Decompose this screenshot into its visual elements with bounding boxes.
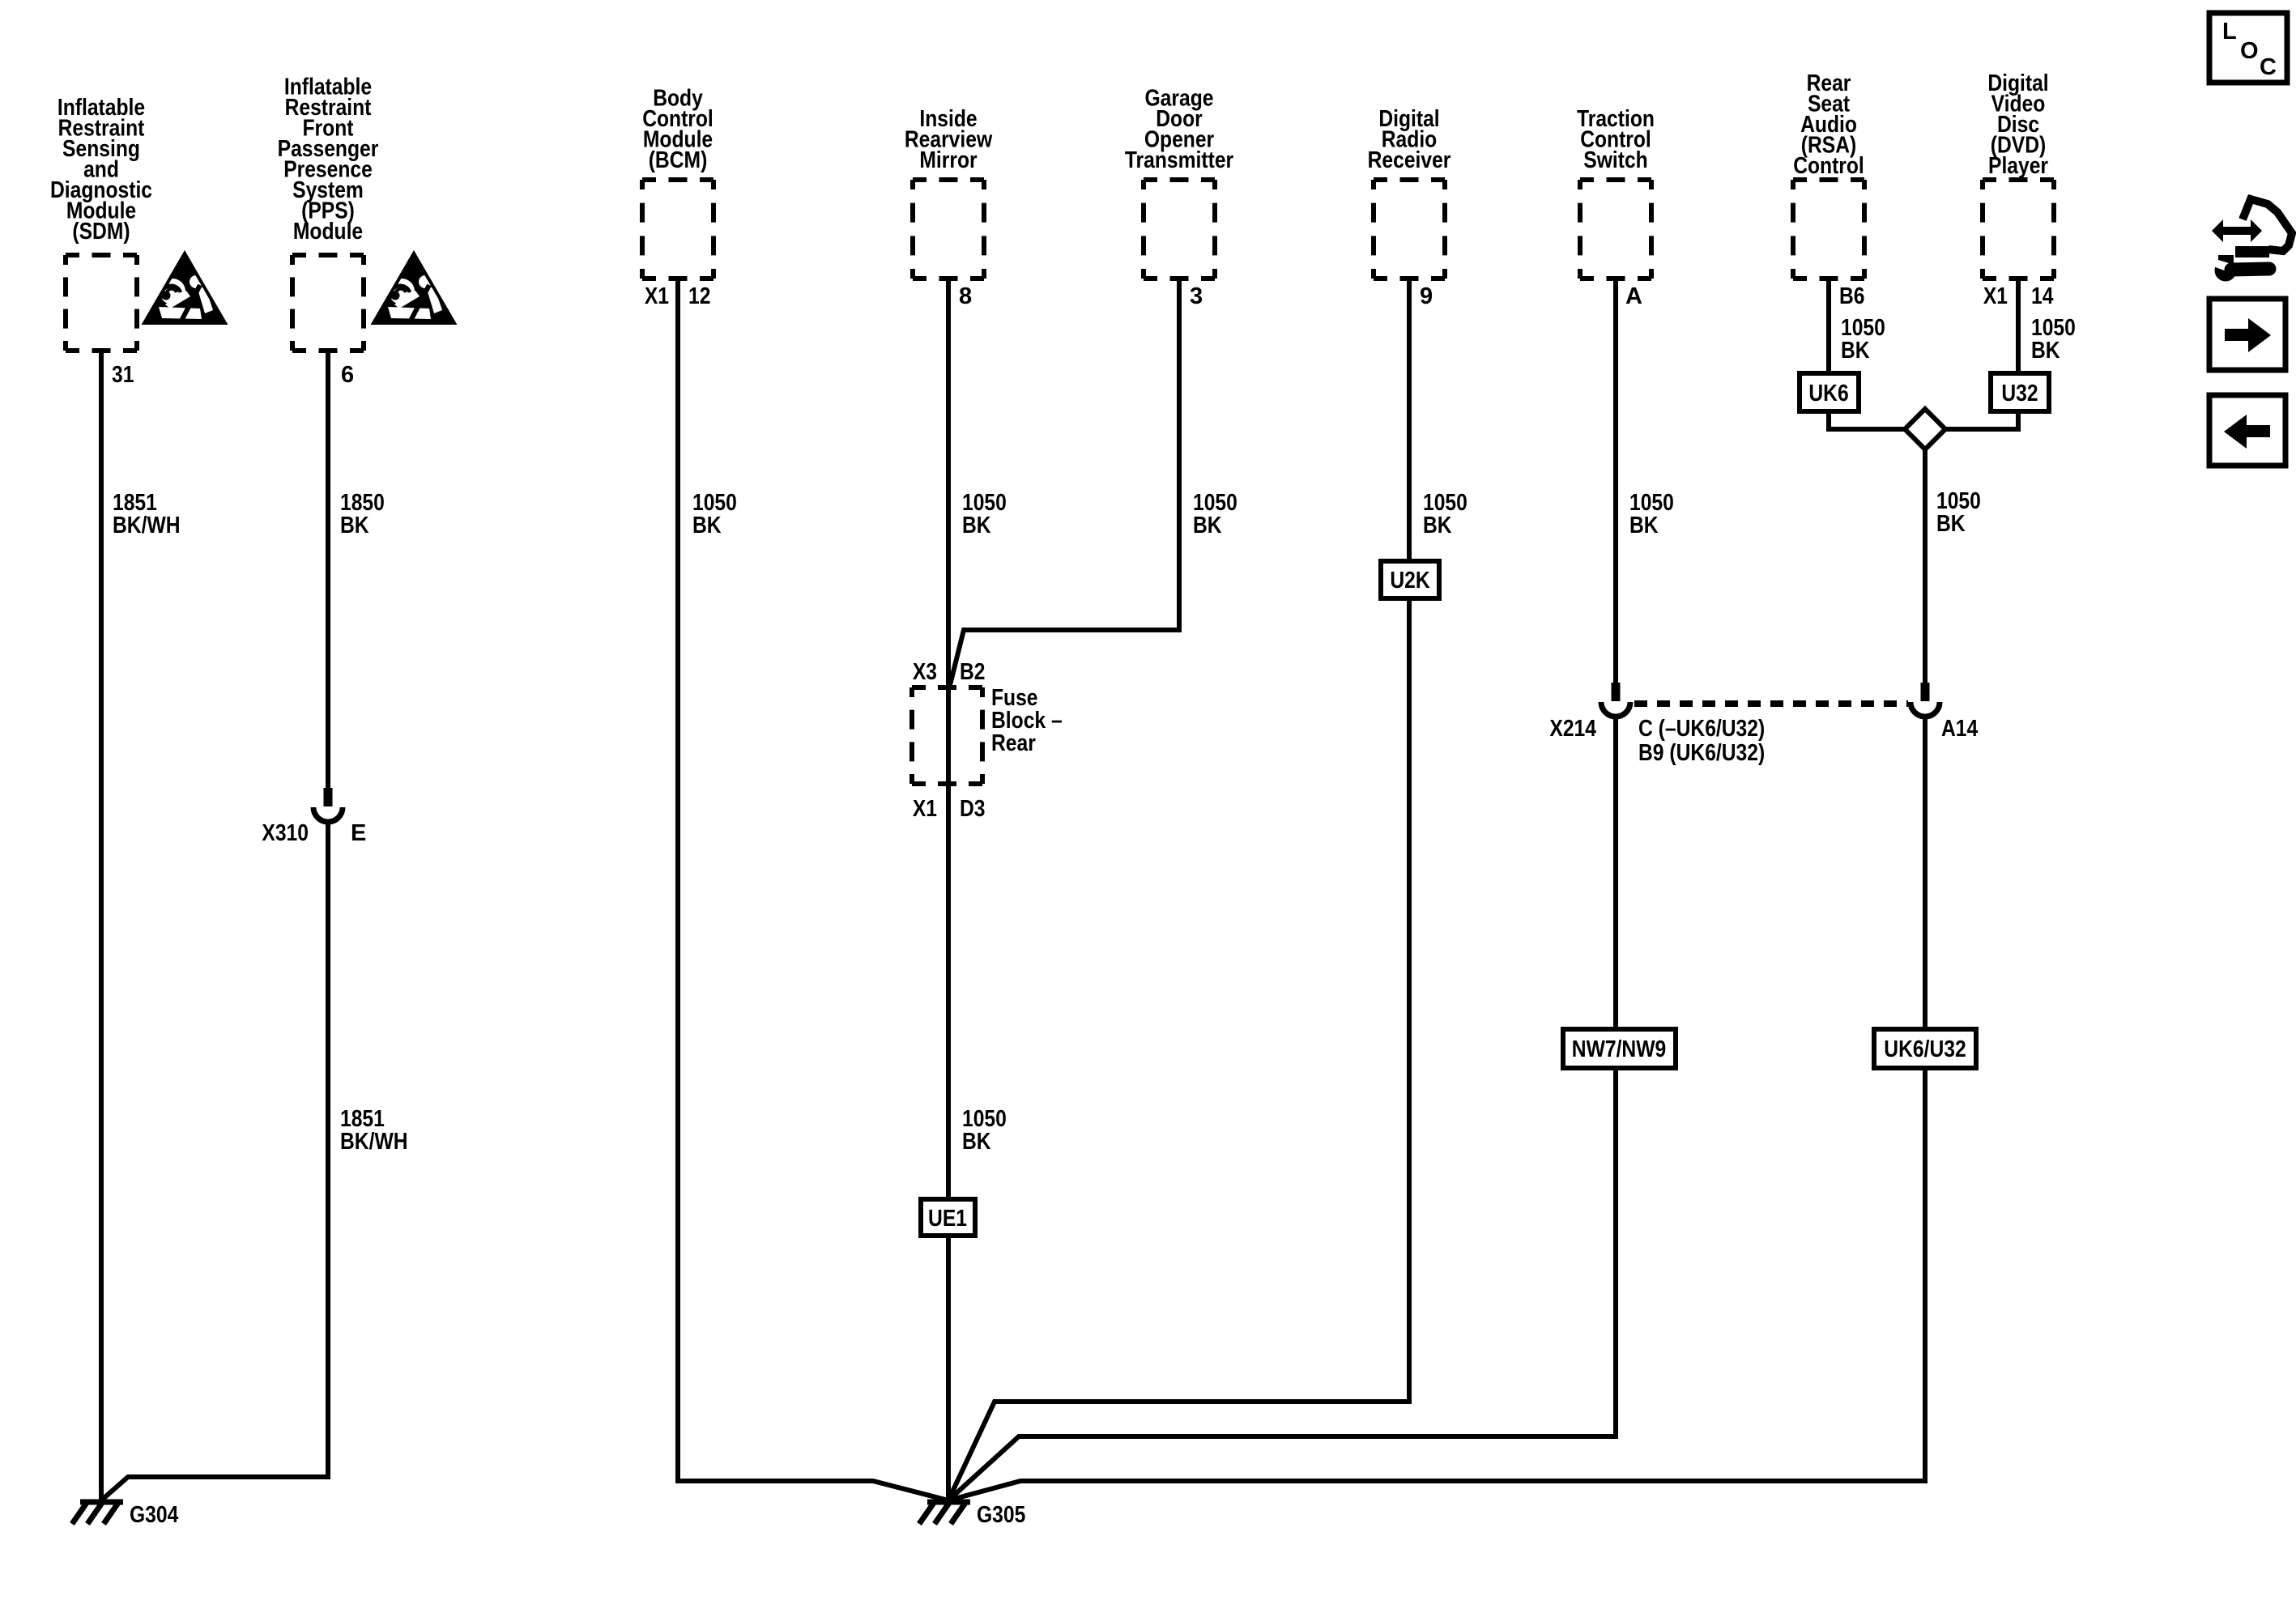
wire: Garage Door Opener Transmitter pin3 1050 BK joining mirror wire at fuse block X3-B2 — [949, 279, 1179, 688]
svg-text:B9 (UK6/U32): B9 (UK6/U32) — [1638, 740, 1765, 766]
wire: X214 to NW7/NW9 — [1613, 716, 1618, 1029]
wire label 1850 BK (PPS) — [340, 490, 385, 538]
connector label X310 E — [262, 820, 366, 846]
label: Inflatable Restraint Sensing and Diagnostic Module (SDM) — [50, 95, 152, 245]
svg-text:BK: BK — [1936, 511, 1966, 537]
wire: Traction Control Switch pinA 1050 BK to X214 — [1613, 279, 1618, 684]
svg-text:B6: B6 — [1839, 283, 1865, 309]
svg-text:Transmitter: Transmitter — [1125, 147, 1233, 173]
wire label 1050 BK (Radio) — [1423, 490, 1467, 538]
svg-text:BK: BK — [962, 1129, 991, 1155]
label: Garage Door Opener Transmitter — [1125, 86, 1233, 174]
wire: UK6/U32 to G305 — [948, 1068, 1925, 1500]
dashed tie line X214 to A14 — [1634, 700, 1908, 707]
connector dashed box: RSA Control — [1793, 180, 1864, 279]
wire: A14 to UK6/U32 — [1923, 716, 1928, 1029]
connector dashed box: Digital Radio Receiver — [1374, 180, 1445, 279]
svg-text:Switch: Switch — [1583, 147, 1647, 173]
option box U32 — [1991, 373, 2049, 411]
svg-text:Rear: Rear — [991, 730, 1036, 756]
svg-text:(SDM): (SDM) — [72, 219, 130, 245]
svg-text:X1: X1 — [645, 283, 669, 309]
svg-text:BK/WH: BK/WH — [340, 1129, 408, 1155]
svg-text:X1: X1 — [913, 796, 937, 822]
label: Inside Rearview Mirror — [905, 106, 993, 173]
svg-text:D3: D3 — [960, 796, 986, 822]
svg-text:U32: U32 — [2001, 381, 2038, 406]
forward arrow box — [2209, 299, 2285, 370]
svg-text:O: O — [2240, 38, 2259, 64]
back arrow box — [2209, 395, 2285, 466]
fuse block pin X3 B2 — [913, 659, 986, 685]
wire: Inside Rearview Mirror pin8 1050 BK through Fuse Block to G305 — [946, 279, 951, 1500]
svg-text:Player: Player — [1988, 153, 2048, 179]
svg-text:31: 31 — [112, 362, 134, 388]
label: Digital Radio Receiver — [1368, 106, 1451, 173]
svg-text:BK: BK — [692, 513, 722, 538]
wire: PPS pin6 1850 BK to X310 — [326, 351, 330, 789]
svg-text:BK: BK — [1193, 513, 1222, 538]
svg-text:BK/WH: BK/WH — [113, 513, 181, 538]
svg-text:L: L — [2222, 19, 2237, 45]
connector dashed box: Traction Control Switch — [1580, 180, 1651, 279]
splice diamond — [1905, 409, 1945, 449]
svg-text:BK: BK — [962, 513, 991, 538]
svg-text:B2: B2 — [960, 659, 986, 685]
wire: UK6 to splice diamond — [1829, 411, 1905, 429]
service/repair icon (double arrow, panel outline, wrench) — [2212, 199, 2292, 282]
svg-text:UK6: UK6 — [1808, 381, 1848, 406]
connector dashed box: Garage Door Opener Transmitter — [1144, 180, 1215, 279]
connector dashed box: PPS module — [292, 255, 364, 351]
svg-text:UK6/U32: UK6/U32 — [1884, 1036, 1966, 1062]
svg-text:Mirror: Mirror — [919, 147, 977, 173]
label: Fuse Block - Rear — [991, 685, 1063, 756]
wire label 1050 BK (Traction) — [1629, 490, 1674, 538]
wire label 1050 BK (BCM) — [692, 490, 737, 538]
connector dashed box: DVD Player — [1983, 180, 2054, 279]
ground G304 symbol — [72, 1502, 123, 1524]
label: Digital Video Disc (DVD) Player — [1987, 70, 2048, 179]
wire: U32 to splice diamond — [1945, 411, 2018, 429]
svg-text:BK: BK — [1629, 513, 1659, 538]
pin X1 14 (DVD) — [1983, 283, 2054, 309]
svg-text:8: 8 — [959, 283, 972, 309]
ground G305 symbol — [919, 1502, 970, 1524]
pin X1 12 (BCM) — [645, 283, 711, 309]
svg-text:BK: BK — [1841, 338, 1870, 364]
svg-text:12: 12 — [688, 283, 710, 309]
svg-text:X3: X3 — [913, 659, 937, 685]
svg-text:G304: G304 — [130, 1502, 178, 1528]
svg-text:C (–UK6/U32): C (–UK6/U32) — [1638, 716, 1765, 742]
svg-text:G305: G305 — [977, 1502, 1025, 1528]
svg-text:Control: Control — [1793, 153, 1864, 179]
wire: splice 1050 BK to A14 — [1923, 449, 1928, 684]
connector dashed box: Inside Rearview Mirror — [913, 180, 984, 279]
svg-text:BK: BK — [2031, 338, 2060, 364]
svg-text:14: 14 — [2031, 283, 2053, 309]
svg-text:X310: X310 — [262, 820, 309, 846]
svg-text:C: C — [2260, 54, 2277, 80]
wire label 1050 BK (GDO) — [1193, 490, 1237, 538]
wire: U2K to G305 — [948, 598, 1409, 1500]
option box UK6 — [1800, 373, 1859, 411]
svg-text:Module: Module — [293, 219, 363, 245]
LOC legend box — [2209, 13, 2287, 83]
svg-text:X1: X1 — [1983, 283, 2008, 309]
svg-text:A: A — [1625, 283, 1642, 309]
wire: RSA Control B6 1050 BK to UK6 — [1826, 279, 1831, 373]
wire label 1050 BK (below splice) — [1936, 488, 1981, 537]
svg-text:6: 6 — [341, 362, 354, 388]
option box NW7/NW9 — [1563, 1029, 1676, 1068]
wire label 1851 BK/WH (PPS lower) — [340, 1106, 408, 1155]
label: Traction Control Switch — [1577, 106, 1655, 173]
option box UK6/U32 — [1874, 1029, 1976, 1068]
svg-text:9: 9 — [1420, 283, 1433, 309]
label: Body Control Module (BCM) — [642, 86, 714, 174]
wire: X310 to G304 1851 BK/WH — [101, 822, 328, 1500]
svg-text:BK: BK — [1423, 513, 1452, 538]
option box UE1 — [921, 1199, 975, 1236]
wire: SDM pin31 1851 BK/WH to G304 — [99, 351, 104, 1500]
connector X310 symbol — [313, 788, 343, 822]
fuse block pin X1 D3 — [913, 796, 986, 822]
wire label 1851 BK/WH (SDM) — [113, 490, 181, 538]
wire label 1050 BK (Mirror) — [962, 490, 1007, 538]
svg-text:UE1: UE1 — [928, 1206, 967, 1232]
svg-text:A14: A14 — [1941, 716, 1978, 742]
wire label 1050 BK (Mirror lower) — [962, 1106, 1007, 1155]
svg-text:3: 3 — [1190, 283, 1203, 309]
svg-text:E: E — [351, 820, 366, 846]
wire: Digital Radio Receiver pin9 1050 BK to U2K — [1407, 279, 1412, 561]
label: Rear Seat Audio (RSA) Control — [1793, 70, 1864, 179]
svg-text:(BCM): (BCM) — [649, 147, 708, 173]
connector X214 symbol — [1601, 683, 1630, 717]
connector dashed box: BCM — [642, 180, 714, 279]
svg-text:U2K: U2K — [1390, 568, 1429, 594]
connector dashed box: SDM module — [66, 255, 137, 351]
connector dashed box: Fuse Block - Rear — [912, 687, 982, 784]
svg-text:Receiver: Receiver — [1368, 147, 1451, 173]
connector A14 symbol — [1910, 683, 1940, 717]
wire: BCM X1-12 1050 BK to G305 — [678, 279, 948, 1500]
warning triangle (airbag) for PPS — [373, 253, 454, 323]
option box U2K — [1381, 561, 1439, 598]
wire: NW7/NW9 to G305 — [948, 1068, 1616, 1500]
wire label 1050 BK (DVD) — [2031, 315, 2076, 364]
svg-text:X214: X214 — [1549, 716, 1596, 742]
svg-text:BK: BK — [340, 513, 369, 538]
wire: DVD Player X1-14 1050 BK to U32 — [2016, 279, 2021, 373]
svg-text:NW7/NW9: NW7/NW9 — [1572, 1036, 1666, 1062]
label: Inflatable Restraint Front Passenger Presence System (PPS) Module — [278, 74, 379, 245]
wire label 1050 BK (RSA) — [1841, 315, 1885, 364]
connector label C (-UK6/U32) B9 (UK6/U32) — [1638, 716, 1765, 766]
